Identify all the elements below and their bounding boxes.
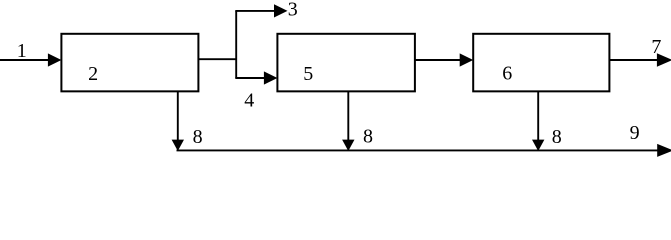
svg-text:4: 4 bbox=[244, 89, 254, 111]
svg-text:8: 8 bbox=[552, 126, 562, 148]
svg-text:9: 9 bbox=[630, 122, 640, 144]
block 2 bbox=[61, 34, 198, 92]
block 6 bbox=[473, 34, 609, 92]
svg-text:1: 1 bbox=[17, 40, 27, 62]
svg-text:8: 8 bbox=[363, 125, 373, 147]
stream 8 drop from block 2 bbox=[172, 91, 184, 151]
svg-text:6: 6 bbox=[502, 63, 512, 85]
svg-text:7: 7 bbox=[651, 36, 661, 58]
stream 7 arrow bbox=[609, 53, 671, 66]
block 5 bbox=[277, 34, 415, 92]
stream arrow block5 to block6 bbox=[415, 53, 473, 66]
svg-text:3: 3 bbox=[288, 0, 298, 20]
svg-text:5: 5 bbox=[303, 63, 313, 85]
svg-text:2: 2 bbox=[88, 63, 98, 85]
svg-text:8: 8 bbox=[193, 126, 203, 148]
stream 3 arrow bbox=[235, 4, 287, 17]
stream 8 drop from block 6 bbox=[532, 91, 544, 151]
stream 1 arrow bbox=[0, 53, 61, 66]
stream 4 arrow bbox=[235, 71, 277, 84]
stream 9 bottom collector line bbox=[177, 144, 671, 157]
stream 8 drop from block 5 bbox=[342, 91, 354, 151]
wire junction riser bbox=[235, 11, 237, 78]
wire block2 output to junction bbox=[198, 58, 236, 60]
